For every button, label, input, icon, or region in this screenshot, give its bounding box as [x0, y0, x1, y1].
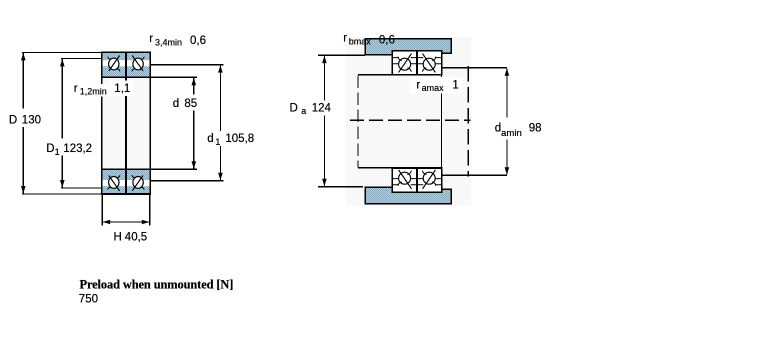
top section inner ring band (blue)	[102, 66, 151, 77]
H arrow left	[103, 220, 111, 225]
contact line top-right ball	[132, 56, 143, 71]
shaft axis dashed line	[350, 119, 471, 121]
shoulder surface line top	[358, 74, 393, 76]
top section shoulder line upper	[392, 57, 441, 59]
top section outer ring band (blue)	[102, 52, 151, 60]
contact line	[423, 170, 436, 189]
white box behind r1,2min	[72, 84, 108, 97]
svg-text:r: r	[343, 33, 347, 45]
svg-text:D: D	[290, 102, 298, 114]
bottom section divider	[416, 168, 418, 192]
svg-text:1,2min: 1,2min	[80, 87, 107, 97]
background hatch region	[346, 37, 471, 206]
top bearing section (white)	[392, 51, 441, 75]
contact line	[423, 54, 436, 73]
H extension line right	[149, 194, 151, 226]
ball top-left (right drawing)	[399, 58, 411, 70]
svg-text:H: H	[114, 231, 122, 243]
svg-text:124: 124	[312, 102, 332, 114]
contact line	[399, 54, 412, 73]
bottom section inner ring band (blue)	[102, 169, 151, 180]
bore line bottom	[102, 168, 151, 170]
damin arrow up	[505, 68, 510, 76]
ball top-right (right drawing)	[423, 58, 435, 70]
D extension line top	[22, 51, 101, 53]
svg-text:1: 1	[452, 80, 458, 92]
ball bottom-left (right drawing)	[399, 172, 411, 184]
d1 extension line top	[150, 64, 223, 66]
ball bottom-right (right drawing)	[423, 172, 435, 184]
d extension line bottom	[150, 168, 197, 170]
svg-text:0,6: 0,6	[379, 34, 395, 46]
contact line	[399, 170, 412, 189]
shaft shoulder dashed line	[357, 76, 359, 168]
cage hooks bottom-left ball	[108, 187, 111, 190]
svg-text:D: D	[9, 115, 17, 127]
D1 arrow up	[60, 59, 65, 67]
bore hatch region	[102, 77, 151, 169]
white box behind ramax	[410, 77, 464, 94]
svg-text:Preload when unmounted [N]: Preload when unmounted [N]	[80, 277, 234, 291]
centre divider line	[125, 52, 127, 194]
d1 dimension line	[219, 65, 221, 180]
svg-text:D: D	[46, 143, 54, 155]
svg-text:d: d	[207, 133, 213, 145]
Da extension line bottom	[318, 186, 363, 188]
damin dimension line	[506, 68, 508, 174]
housing block bottom (blue)	[365, 187, 451, 204]
shaft seat right edge line	[441, 68, 443, 175]
contact line top-left ball	[109, 56, 120, 71]
svg-text:85: 85	[184, 98, 197, 110]
d arrow up	[192, 78, 197, 86]
svg-text:40,5: 40,5	[125, 231, 147, 243]
bottom section shoulder line upper	[392, 178, 441, 180]
H arrow right	[142, 220, 150, 225]
svg-text:130: 130	[22, 115, 41, 127]
svg-text:98: 98	[529, 123, 542, 135]
bottom section ball band (white)	[102, 180, 151, 186]
svg-text:105,8: 105,8	[225, 133, 254, 145]
svg-text:r: r	[74, 83, 78, 95]
bottom bearing section (white)	[392, 168, 441, 192]
contact line bottom-left ball	[109, 176, 120, 191]
bottom section shoulder line lower	[392, 184, 441, 186]
damin extension line top	[442, 67, 507, 69]
cage hooks top-left ball	[108, 57, 111, 60]
svg-text:1,1: 1,1	[114, 83, 130, 95]
cage hooks	[398, 182, 402, 186]
D dimension line	[22, 53, 24, 194]
ball bottom-left	[109, 177, 119, 189]
svg-text:bmax: bmax	[349, 37, 372, 47]
damin arrow down	[505, 167, 510, 175]
cage hooks bottom-right ball	[141, 187, 144, 190]
top section shoulder line lower	[392, 63, 441, 65]
svg-text:amax: amax	[422, 83, 445, 93]
d1 arrow up	[218, 65, 223, 73]
shoulder surface line bottom	[358, 167, 393, 169]
svg-text:750: 750	[79, 294, 98, 306]
d1 extension line bottom	[150, 180, 223, 182]
svg-text:3,4min: 3,4min	[155, 38, 182, 48]
H extension line left	[101, 194, 103, 226]
d dimension line	[193, 78, 195, 169]
ball top-left	[109, 58, 119, 70]
H dimension line	[103, 221, 150, 223]
cage hooks	[432, 57, 436, 61]
Da arrow down	[322, 179, 327, 187]
bottom section outer ring band (blue)	[102, 186, 151, 194]
D1 arrow down	[60, 180, 65, 188]
bearing outline rect	[102, 52, 151, 194]
svg-text:r: r	[149, 33, 153, 45]
Da arrow up	[322, 56, 327, 64]
shaft end dashed line	[467, 66, 469, 176]
svg-text:1: 1	[215, 137, 220, 147]
cage hooks	[432, 182, 436, 186]
white box behind 1,1	[109, 81, 135, 97]
d1 arrow down	[218, 173, 223, 181]
damin extension line bottom	[442, 174, 507, 176]
svg-text:a: a	[301, 106, 306, 116]
D1 extension line bottom	[61, 187, 101, 189]
D arrow up	[21, 53, 26, 61]
D1 dimension line	[61, 59, 63, 188]
D extension line bottom	[22, 193, 101, 195]
cage hooks top-right ball	[141, 57, 144, 60]
ball top-right	[133, 58, 143, 70]
svg-text:r: r	[416, 80, 420, 92]
svg-text:amin: amin	[501, 128, 522, 139]
svg-text:0,6: 0,6	[190, 35, 206, 47]
ball bottom-right	[133, 177, 143, 189]
top section ball band (white)	[102, 60, 151, 66]
svg-text:123,2: 123,2	[63, 143, 92, 155]
cage hooks	[398, 57, 402, 61]
Da extension line top	[318, 54, 365, 56]
D arrow down	[21, 186, 26, 194]
top section divider	[416, 51, 418, 75]
D1 extension line top	[61, 57, 101, 59]
Da dimension line	[323, 56, 325, 187]
bore line top	[102, 76, 151, 78]
contact line bottom-right ball	[132, 176, 143, 191]
housing block top (blue)	[365, 39, 451, 55]
d arrow down	[192, 161, 197, 169]
svg-text:1: 1	[55, 147, 60, 157]
svg-text:d: d	[173, 98, 179, 110]
d extension line top	[150, 76, 197, 78]
